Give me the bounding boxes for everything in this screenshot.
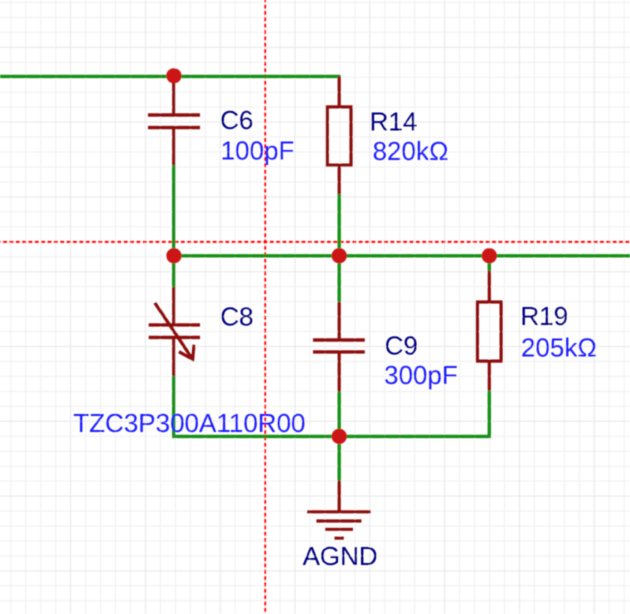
svg-text:C6: C6 <box>220 105 253 135</box>
wire node to AGND <box>338 436 341 480</box>
ground AGND <box>307 481 371 539</box>
svg-text:205kΩ: 205kΩ <box>521 333 597 363</box>
node mid right <box>482 248 497 263</box>
wire C9 bottom to node <box>338 392 341 437</box>
resistor R14 <box>327 76 351 194</box>
svg-text:100pF: 100pF <box>221 136 295 166</box>
resistor R19 <box>477 271 501 391</box>
svg-text:R19: R19 <box>520 301 568 331</box>
svg-text:AGND: AGND <box>303 541 378 571</box>
wire R14 bottom to node <box>338 194 341 256</box>
node top C6/wire <box>166 68 181 83</box>
node bottom <box>332 429 347 444</box>
crosshair vertical dashed line <box>264 0 266 614</box>
node mid center <box>332 248 347 263</box>
capacitor C9 <box>313 302 365 392</box>
crosshair horizontal dashed line <box>0 241 630 243</box>
svg-text:R14: R14 <box>370 106 418 136</box>
variable capacitor C8 <box>149 287 200 376</box>
wire node to C8 top <box>172 256 175 287</box>
wire bottom U: C8 bottom, bottom run, R19 bottom <box>174 376 490 436</box>
svg-text:C8: C8 <box>220 302 253 332</box>
capacitor C6 <box>148 76 200 165</box>
svg-text:TZC3P300A110R00: TZC3P300A110R00 <box>73 408 305 438</box>
wire top horizontal <box>0 75 341 78</box>
wire C6 bottom to node <box>172 165 175 256</box>
svg-text:C9: C9 <box>385 331 418 361</box>
node mid left <box>166 248 181 263</box>
svg-text:820kΩ: 820kΩ <box>373 136 449 166</box>
svg-text:300pF: 300pF <box>384 360 458 390</box>
wire middle horizontal <box>174 254 630 257</box>
wire node to C9 top <box>338 256 341 302</box>
wire node to R19 top <box>488 256 491 271</box>
